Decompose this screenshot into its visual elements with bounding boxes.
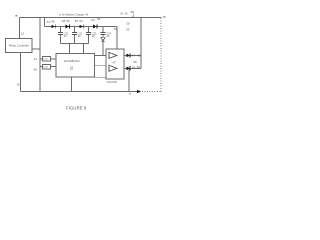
svg-text:TLC3702: TLC3702 (106, 80, 117, 84)
svg-text:47: 47 (113, 61, 117, 65)
svg-text:28: 28 (131, 10, 135, 14)
svg-text:35: 35 (133, 60, 137, 64)
svg-text:20: 20 (126, 22, 130, 26)
svg-text:Li-Ion Battery Charger 42: Li-Ion Battery Charger 42 (59, 14, 89, 17)
svg-text:FIGURE 8: FIGURE 8 (66, 106, 87, 111)
svg-text:Relay Controller: Relay Controller (9, 44, 29, 48)
svg-text:36: 36 (132, 66, 136, 70)
svg-text:12: 12 (21, 31, 25, 35)
svg-text:50: 50 (66, 19, 70, 23)
svg-text:40: 40 (34, 67, 38, 71)
svg-text:22: 22 (126, 27, 130, 31)
svg-text:16: 16 (70, 65, 74, 69)
svg-text:46: 46 (51, 20, 55, 24)
svg-text:58: 58 (114, 27, 118, 31)
svg-text:44: 44 (47, 20, 51, 24)
svg-text:52: 52 (75, 19, 79, 23)
svg-text:34: 34 (132, 54, 136, 58)
svg-text:32: 32 (137, 65, 141, 69)
svg-text:56: 56 (97, 17, 101, 21)
svg-text:HCS08QG4: HCS08QG4 (64, 59, 80, 63)
svg-text:18: 18 (162, 15, 166, 19)
svg-text:48: 48 (62, 19, 66, 23)
svg-text:41: 41 (34, 57, 38, 61)
svg-text:30: 30 (138, 53, 142, 57)
svg-text:53: 53 (79, 19, 83, 23)
svg-text:54: 54 (91, 18, 95, 22)
